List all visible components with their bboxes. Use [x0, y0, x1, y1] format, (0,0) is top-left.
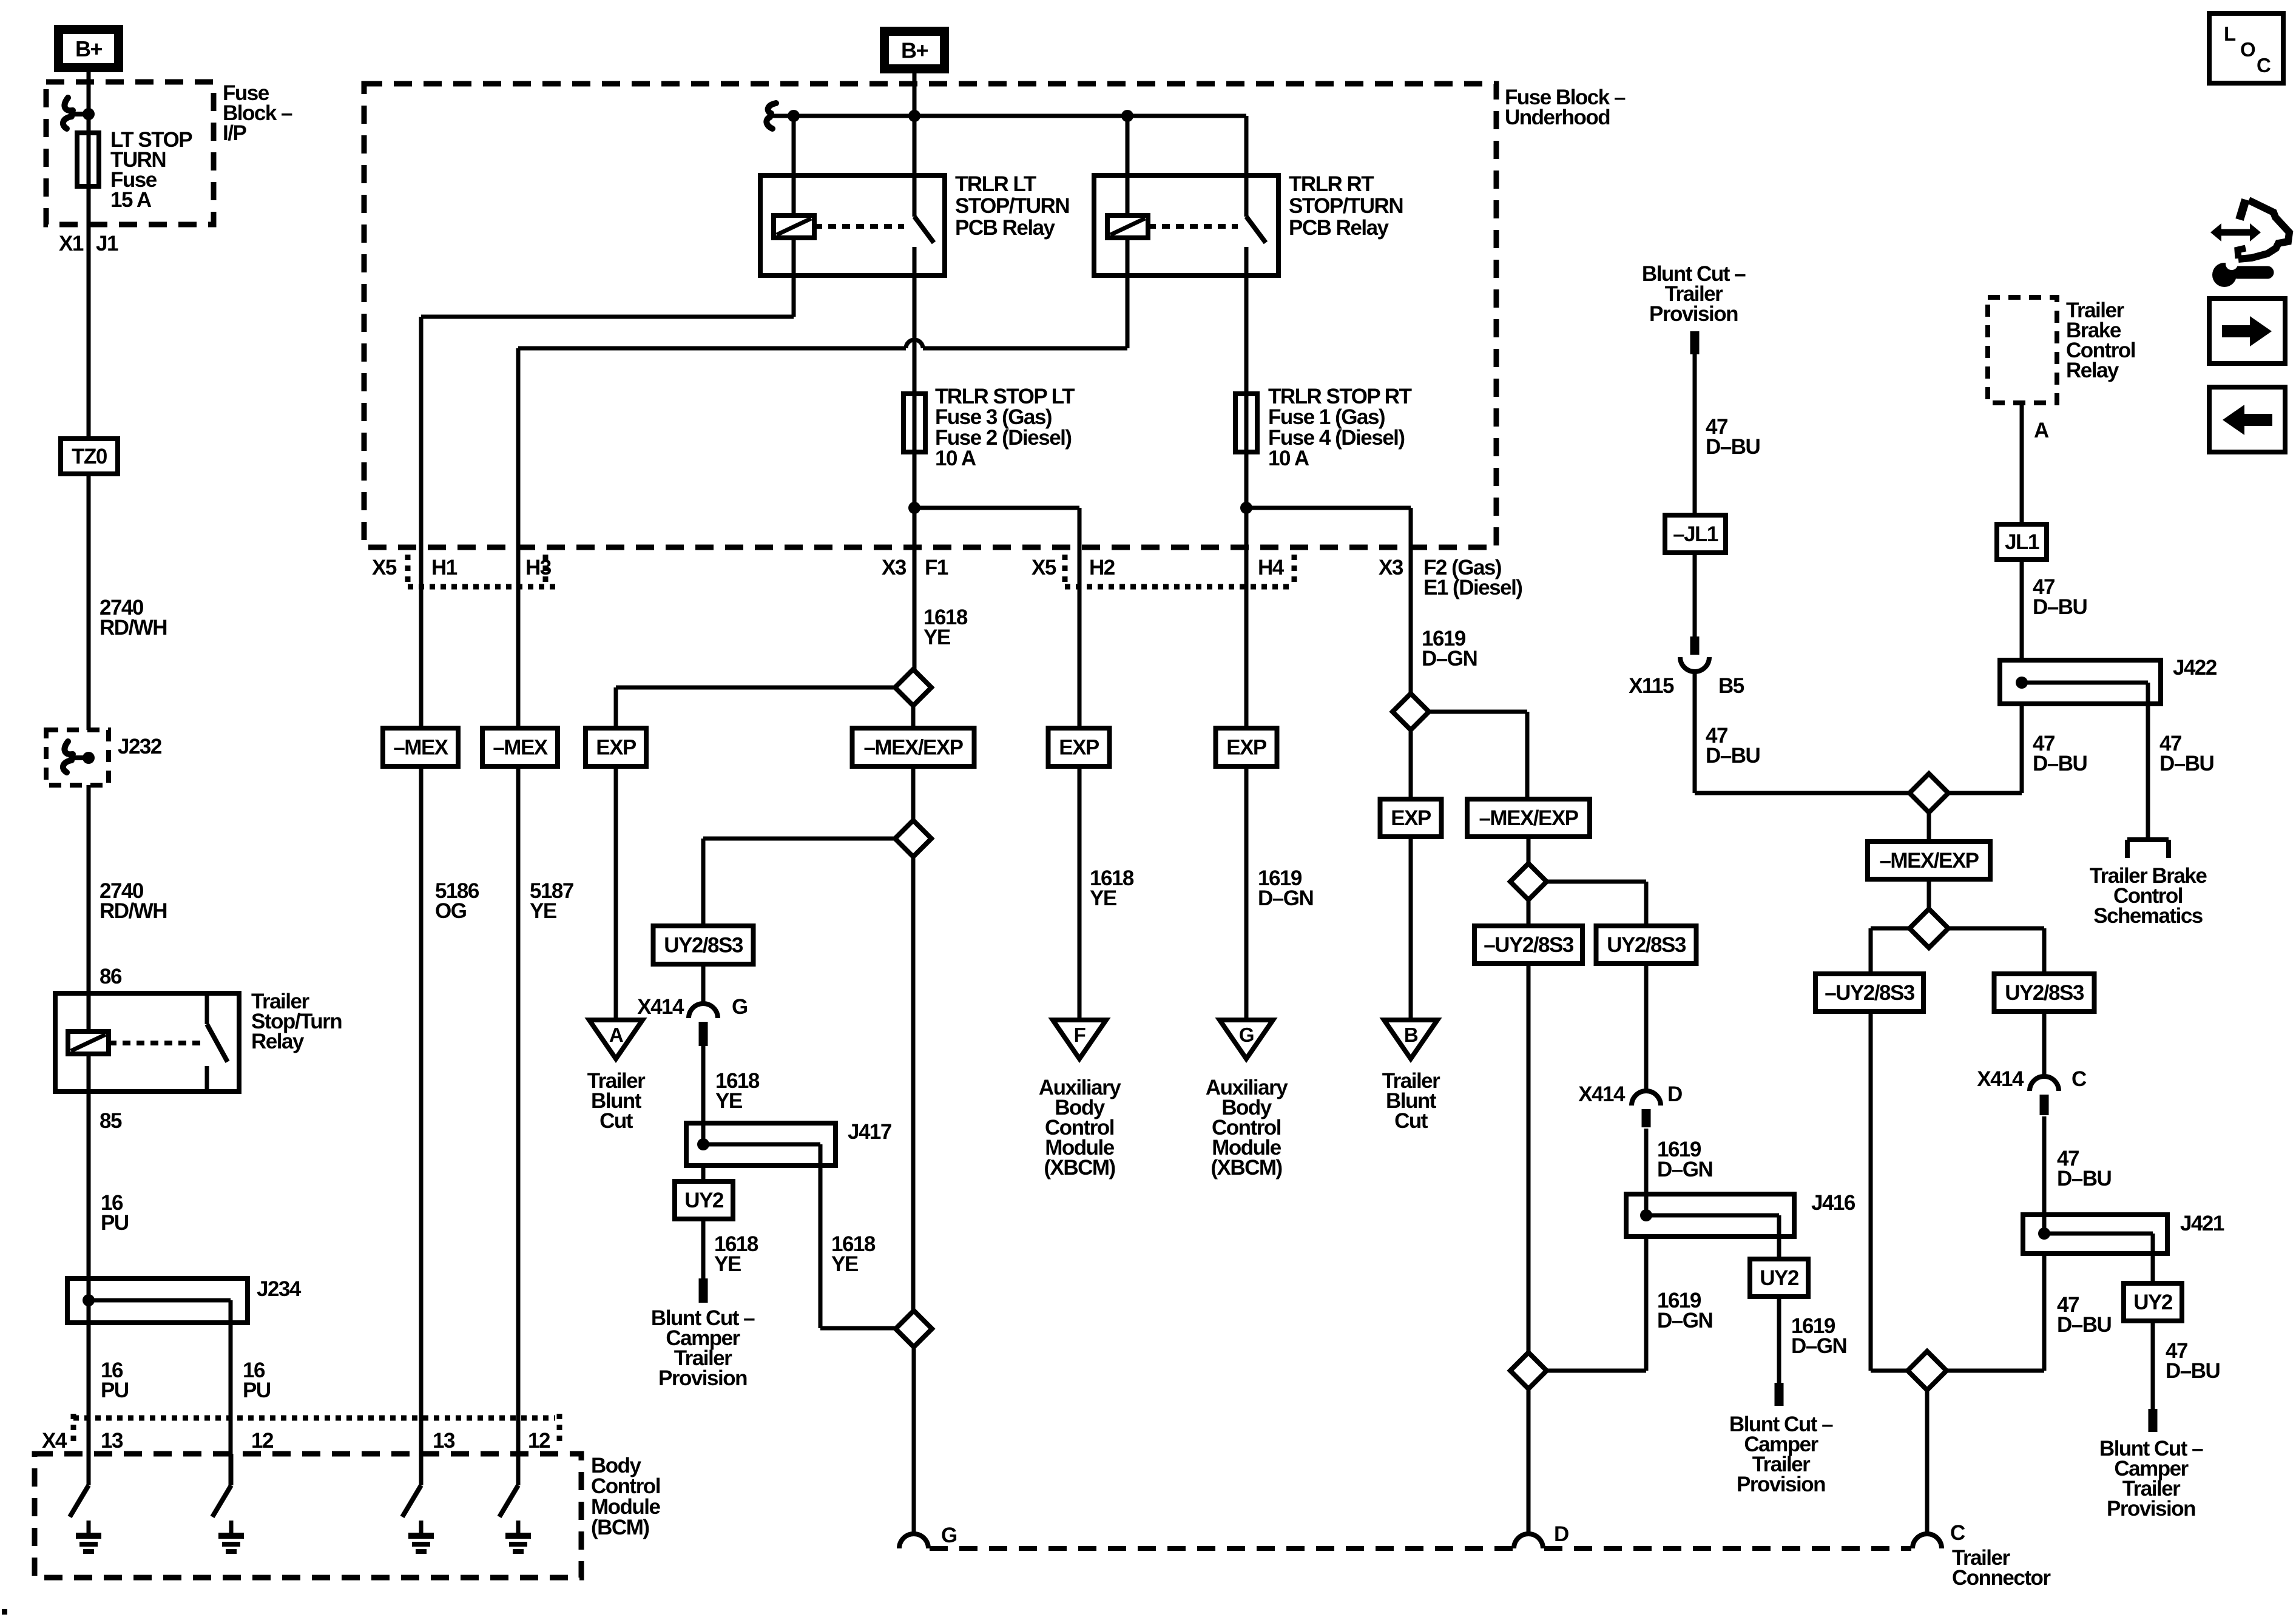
option code box UY2 (camper 1619): [1750, 1259, 1808, 1297]
option code box -JL1: [1665, 515, 1726, 553]
splice diamond 9 on 47 D-BU: [1908, 1351, 1947, 1534]
connector label X1: [59, 232, 84, 255]
svg-text:C: C: [2071, 1067, 2087, 1091]
pin label D: [1667, 1082, 1682, 1106]
pin label H4: [1258, 556, 1285, 579]
svg-text:Blunt Cut –CamperTrailerProvis: Blunt Cut –CamperTrailerProvision: [1729, 1413, 1833, 1496]
svg-text:UY2/8S3: UY2/8S3: [664, 934, 743, 957]
label J422: [2173, 656, 2217, 680]
splice diamond 4 on 1619 D-GN: [1393, 694, 1429, 799]
wire X414 D to J416, 1619 D-GN: [1644, 1129, 1649, 1215]
splice pack J416: [1626, 1194, 1794, 1237]
relay K1 coil: [68, 1031, 109, 1054]
option code box -UY2/8S3 (47 D-BU): [1815, 974, 1923, 1011]
pin label H1: [431, 556, 458, 579]
option code box UY2/8S3 (X414 C): [1994, 974, 2095, 1011]
wire B+ to bus: [913, 73, 917, 116]
svg-text:A: A: [609, 1024, 623, 1046]
in-line connector TZ0: [61, 439, 118, 474]
svg-text:EXP: EXP: [1059, 736, 1099, 760]
wire label 1619 D-GN (X414 D): [1657, 1138, 1712, 1181]
in-line connector X414 cavity G: [689, 1004, 718, 1046]
wire K2 coil to H1 (5186 OG): [421, 238, 794, 728]
svg-text:Blunt Cut –CamperTrailerProvis: Blunt Cut –CamperTrailerProvision: [651, 1306, 755, 1390]
option code box -MEX/EXP (F1): [853, 728, 974, 766]
option code box UY2 (camper): [675, 1181, 733, 1219]
splice diamond on 1618 YE: [895, 669, 931, 728]
label Fuse Block - I/P: [223, 81, 292, 145]
svg-text:TZ0: TZ0: [72, 445, 107, 468]
wire 5187 YE down to BCM: [516, 766, 521, 1485]
svg-text:–MEX/EXP: –MEX/EXP: [1479, 806, 1578, 830]
splice pack J422: [2000, 660, 2161, 704]
splice diamond 7 on 47 D-BU: [1909, 774, 1948, 842]
wire label 47 D-BU (X115): [1706, 724, 1760, 768]
svg-text:D: D: [1667, 1082, 1682, 1106]
pin label F2 (Gas) E1 (Diesel): [1423, 556, 1522, 599]
Trailer Connector dashed line: [930, 1546, 1911, 1551]
wire J421 left leg to diamond 9: [1947, 1254, 2044, 1371]
off-page triangle F: [1053, 1020, 1106, 1059]
svg-text:J234: J234: [257, 1277, 302, 1301]
wire diamond 5 to UY2/8S3 (camper D): [1547, 882, 1646, 926]
relay K2 coil: [774, 215, 814, 238]
wire label 1619 D-GN (camper): [1791, 1314, 1846, 1358]
svg-text:X3: X3: [882, 556, 907, 579]
svg-text:G: G: [941, 1524, 957, 1547]
wire label 2740 RD/WH (lower): [100, 879, 167, 923]
pin label 13 (BCM right): [433, 1429, 455, 1453]
relay K2 coil-contact dashed link: [814, 224, 904, 229]
svg-text:H1: H1: [431, 556, 458, 579]
wire relay coil to J234, circuit 16 PU: [87, 1054, 91, 1485]
svg-text:D: D: [1554, 1522, 1568, 1546]
svg-text:C: C: [2257, 54, 2271, 76]
wire relay pin A to JL1: [2020, 403, 2024, 524]
svg-text:86: 86: [100, 965, 122, 988]
svg-text:X115: X115: [1629, 674, 1674, 698]
wire label 1619 D-GN (J416 left): [1657, 1289, 1712, 1332]
svg-text:–JL1: –JL1: [1673, 522, 1718, 546]
pin label C: [2071, 1067, 2087, 1091]
wire J234 right leg down: [229, 1323, 233, 1485]
wire label 16 PU: [101, 1191, 129, 1235]
junction dot J234: [83, 1294, 95, 1306]
wire B+ to fuse: [87, 72, 91, 134]
wire label 47 D-BU (J422 right): [2159, 732, 2214, 775]
svg-text:F1: F1: [925, 556, 948, 579]
relay K1 coil-contact dashed link: [109, 1041, 200, 1045]
connector label X3 (F2): [1379, 556, 1403, 579]
wire J422 left leg to diamond 7: [1948, 704, 2022, 793]
junction dot bus/coil1: [788, 110, 800, 122]
wire label 1618 YE (top): [923, 606, 968, 649]
wire J416 left leg to diamond 6: [1547, 1237, 1646, 1371]
option code box EXP (B branch): [1380, 799, 1442, 837]
svg-text:B+: B+: [75, 36, 102, 61]
wire label 16 PU (right leg): [243, 1359, 271, 1402]
svg-text:X1: X1: [59, 232, 84, 255]
off-schematic pointer symbol: [2127, 840, 2169, 858]
svg-text:G: G: [732, 995, 748, 1019]
relay K3 coil-contact dashed link: [1148, 224, 1238, 229]
LOC legend box: [2209, 13, 2283, 83]
wire -JL1 to X115: [1690, 553, 1700, 655]
in-line connector X115 cavity B5: [1680, 657, 1709, 672]
wire UY2/8S3 to X414 G: [701, 964, 706, 1005]
wire branch to H2: [914, 508, 1079, 728]
wire J417 right leg to diamond 3: [820, 1166, 896, 1328]
right arrow legend box: [2209, 299, 2285, 363]
svg-text:B+: B+: [901, 38, 928, 63]
wire diamond 8 to -UY2/8S3: [1871, 928, 1909, 974]
junction dot J421: [2038, 1227, 2050, 1240]
option code box UY2 (47 D-BU): [2124, 1283, 2182, 1321]
pin label 12 (BCM): [251, 1429, 274, 1453]
svg-text:EXP: EXP: [1226, 736, 1267, 760]
fuse TRLR STOP RT: [1235, 391, 1257, 508]
label Trailer Connector: [1952, 1546, 2051, 1590]
wire label 1618 YE (camper): [714, 1232, 758, 1276]
pin label G: [732, 995, 748, 1019]
trailer connector cavity G arc: [899, 1534, 928, 1548]
pigtail at bus end: [766, 103, 776, 129]
option code box -MEX/EXP (F2): [1467, 799, 1590, 837]
off-page triangle G: [1220, 1020, 1273, 1059]
B+ battery feed symbol (left): [59, 30, 119, 68]
splice pack J234: [67, 1278, 248, 1323]
wire bus to K2 coil: [792, 116, 796, 215]
pin label F1: [925, 556, 948, 579]
label TRLR STOP RT fuse: [1268, 385, 1412, 470]
wire F1 down: [913, 508, 917, 669]
option code box -MEX/EXP (47 D-BU): [1868, 842, 1990, 879]
Fuse Block - Underhood dashed box: [364, 84, 1496, 547]
wire label 16 PU (left leg): [101, 1359, 129, 1402]
pin label D (trailer connector): [1554, 1522, 1568, 1546]
pin label B5: [1718, 674, 1744, 698]
wire UY2 to blunt cut (47 D-BU): [2149, 1321, 2158, 1432]
option code box EXP (A branch): [586, 728, 646, 766]
label Trailer Stop/Turn Relay: [251, 990, 342, 1053]
wire label 47 D-BU (J421 left): [2057, 1293, 2112, 1337]
svg-text:B5: B5: [1718, 674, 1744, 698]
option code box UY2/8S3 (camper D): [1596, 926, 1697, 964]
relay K3 coil: [1107, 215, 1148, 238]
svg-text:13: 13: [101, 1429, 123, 1453]
wire X115 to diamond 7, 47 D-BU: [1695, 672, 1909, 793]
relay K3 switch contact: [1246, 116, 1266, 275]
label J232: [118, 735, 162, 758]
relay K1 switch contact: [207, 993, 228, 1092]
pin label 86: [100, 965, 122, 988]
option code box JL1: [1997, 524, 2047, 559]
connector label X414 (D): [1578, 1082, 1626, 1106]
connector label X414 (G): [637, 995, 684, 1019]
splice diamond 3 on 1618 YE: [896, 1311, 932, 1534]
svg-text:EXP: EXP: [1391, 806, 1431, 830]
junction dot J417: [697, 1138, 709, 1150]
svg-text:X4: X4: [42, 1429, 67, 1453]
junction dot J422: [2016, 677, 2028, 689]
wire EXP to triangle B: [1409, 837, 1413, 1020]
pin label J1: [96, 232, 118, 255]
B+ distribution bus wire: [772, 114, 1246, 118]
connector bracket H1/H3 dotted: [408, 555, 559, 587]
svg-text:13: 13: [433, 1429, 455, 1453]
wire UY2 to blunt cut, 1618 YE: [699, 1219, 708, 1303]
wire J417 to UY2: [701, 1166, 706, 1181]
label Blunt Cut Camper Trailer Provision (1619): [1729, 1413, 1833, 1496]
B+ battery feed symbol (center): [885, 32, 945, 69]
BCM internal switch and ground 4: [499, 1454, 531, 1551]
svg-text:Fuse Block –Underhood: Fuse Block –Underhood: [1505, 86, 1626, 129]
pin label C (trailer connector): [1950, 1521, 1965, 1545]
option code box -UY2/8S3 (D chain): [1474, 926, 1582, 964]
svg-text:–MEX: –MEX: [493, 736, 548, 760]
junction dot bus/B+: [908, 110, 920, 122]
svg-text:O: O: [2240, 38, 2255, 61]
wire label 1619 D-GN (top): [1422, 627, 1477, 670]
wire UY2/8S3 to X414 D: [1644, 964, 1649, 1092]
svg-text:12: 12: [251, 1429, 274, 1453]
wire TZ0 down, circuit 2740 RD/WH: [87, 474, 91, 730]
wire J232 to relay coil: [87, 785, 91, 1031]
label LT STOP TURN Fuse 15 A: [110, 128, 192, 212]
in-line connector X414 cavity C: [2030, 1076, 2059, 1115]
wire bus to K3 coil: [1126, 116, 1130, 215]
relay K1 Trailer Stop/Turn Relay box: [55, 993, 239, 1092]
label Trailer Blunt Cut (A): [587, 1069, 646, 1133]
off-page triangle A: [589, 1020, 643, 1059]
vehicle diagnostic icon: [2210, 200, 2289, 287]
Body Control Module BCM dashed box: [35, 1454, 581, 1578]
svg-text:EXP: EXP: [596, 736, 636, 760]
label TRLR LT STOP/TURN PCB Relay: [955, 172, 1069, 240]
splice pack J417: [686, 1123, 836, 1166]
svg-text:L: L: [2224, 22, 2236, 45]
connector X4 dotted row: [73, 1414, 559, 1447]
svg-text:X5: X5: [1032, 556, 1056, 579]
wire blunt cut to -JL1, 47 D-BU: [1693, 354, 1697, 515]
svg-text:UY2/8S3: UY2/8S3: [2005, 981, 2084, 1005]
label Trailer Brake Control Relay: [2066, 299, 2135, 382]
svg-text:J421: J421: [2180, 1212, 2224, 1235]
wire diamond 4 to -MEX/EXP: [1429, 712, 1527, 799]
wire X414 C to J421, 47 D-BU: [2042, 1116, 2047, 1234]
label Blunt Cut Camper Trailer Provision (47 D-BU): [2099, 1437, 2203, 1521]
wire UY2 to blunt cut (1619): [1775, 1297, 1784, 1406]
svg-text:J422: J422: [2173, 656, 2217, 680]
wire K2 switch to fuse TRLR STOP LT: [913, 275, 917, 391]
option code box -MEX (5187): [482, 728, 558, 766]
wire -MEX/EXP to diamond: [911, 766, 916, 820]
wire label 1618 YE (J417 right): [831, 1232, 876, 1276]
connector label X414 (C): [1977, 1067, 2024, 1091]
pin label H2: [1089, 556, 1115, 579]
wire X414 G to J417, 1618 YE: [701, 1046, 706, 1144]
svg-text:J232: J232: [118, 735, 162, 758]
BCM internal switch and ground 2: [212, 1454, 244, 1551]
wire label 5187 YE: [530, 879, 573, 923]
svg-text:G: G: [1239, 1024, 1254, 1046]
wire label 47 D-BU (blunt cut): [1706, 415, 1760, 459]
junction dot F1 branch: [908, 502, 920, 514]
fuse TRLR STOP LT: [903, 391, 925, 508]
connector label X3 (F1): [882, 556, 907, 579]
label Body Control Module (BCM): [591, 1454, 661, 1539]
Trailer Brake Control Relay dashed box: [1988, 297, 2057, 403]
splice pack J421: [2023, 1215, 2167, 1254]
svg-text:F: F: [1074, 1024, 1086, 1046]
relay K2 TRLR LT STOP/TURN PCB Relay box: [760, 175, 945, 275]
junction dot bus/coil2: [1121, 110, 1133, 122]
svg-text:A: A: [2034, 419, 2049, 442]
wire to EXP (trailer blunt cut A): [616, 687, 895, 728]
wire K3 coil to H3 (5187 YE) with hop over F1 wire: [518, 238, 1127, 728]
label TRLR STOP LT fuse: [935, 385, 1075, 470]
wire J416 right leg to UY2: [1777, 1237, 1781, 1259]
relay K2 switch contact: [914, 116, 934, 275]
relay K3 TRLR RT STOP/TURN PCB Relay box: [1094, 175, 1278, 275]
in-line connector X414 cavity D: [1632, 1091, 1661, 1127]
option code box EXP (H2): [1048, 728, 1110, 766]
label Blunt Cut Camper Trailer Provision (1618): [651, 1306, 755, 1390]
svg-text:J416: J416: [1811, 1191, 1855, 1215]
junction dot J232: [83, 752, 95, 764]
label J416: [1811, 1191, 1855, 1215]
wire J421 right leg to UY2: [2151, 1254, 2155, 1283]
wire label 47 D-BU (X414 C): [2057, 1147, 2112, 1190]
svg-text:UY2: UY2: [1760, 1266, 1799, 1290]
svg-text:AuxiliaryBodyControlModule(XBC: AuxiliaryBodyControlModule(XBCM): [1039, 1076, 1121, 1180]
connector bracket H2/H4 dotted: [1065, 555, 1294, 587]
pin label 12 (BCM rightmost): [528, 1429, 550, 1453]
blunt cut terminal (47 D-BU top): [1690, 331, 1700, 354]
svg-text:–UY2/8S3: –UY2/8S3: [1484, 933, 1574, 957]
wire EXP to triangle A: [614, 766, 618, 1020]
trailer connector cavity C arc: [1913, 1534, 1942, 1548]
left arrow legend box: [2209, 387, 2285, 452]
wire label 47 D-BU (camper): [2166, 1339, 2220, 1383]
wire 5186 OG down to BCM: [419, 766, 424, 1485]
splice J232 dashed box: [46, 730, 109, 785]
svg-text:UY2/8S3: UY2/8S3: [1607, 933, 1686, 957]
svg-text:JL1: JL1: [2005, 530, 2039, 554]
svg-text:X5: X5: [372, 556, 397, 579]
wire branch to F2: [1246, 508, 1411, 694]
svg-text:Blunt Cut –CamperTrailerProvis: Blunt Cut –CamperTrailerProvision: [2099, 1437, 2203, 1521]
label Blunt Cut Trailer Provision: [1642, 262, 1746, 326]
wire diamond 8 to UY2/8S3 (X414 C): [1948, 928, 2044, 974]
connector label X5 (H2): [1032, 556, 1056, 579]
svg-text:X3: X3: [1379, 556, 1403, 579]
page footer period: [2, 1609, 7, 1615]
svg-text:B: B: [1404, 1024, 1418, 1046]
splice diamond 6 on 1619 D-GN: [1510, 1352, 1547, 1534]
label J421: [2180, 1212, 2224, 1235]
label Auxiliary Body Control Module XBCM (G): [1206, 1076, 1288, 1180]
svg-text:12: 12: [528, 1429, 550, 1453]
svg-text:X414: X414: [1977, 1067, 2024, 1091]
splice diamond 2 on 1618 YE: [895, 820, 931, 1311]
off-page triangle B: [1384, 1020, 1437, 1059]
label Trailer Blunt Cut (B): [1382, 1069, 1440, 1133]
svg-text:J1: J1: [96, 232, 118, 255]
wire UY2/8S3 to X414 C: [2042, 1011, 2047, 1078]
wire -UY2/8S3 down to diamond 6: [1527, 964, 1531, 1352]
label J234: [257, 1277, 302, 1301]
BCM internal switch and ground 1: [70, 1454, 101, 1551]
label J417: [848, 1120, 891, 1144]
pin label 13 (BCM): [101, 1429, 123, 1453]
connector label X115: [1629, 674, 1674, 698]
pin label 85: [100, 1109, 122, 1133]
trailer connector cavity D arc: [1514, 1534, 1543, 1548]
svg-text:–MEX: –MEX: [393, 736, 448, 760]
svg-text:X414: X414: [1578, 1082, 1626, 1106]
label Trailer Brake Control Schematics: [2090, 864, 2207, 928]
wire H2 to triangle F, 1618 YE: [1078, 766, 1082, 1020]
wire -UY2/8S3 down to diamond 9: [1871, 1011, 1908, 1371]
svg-text:UY2: UY2: [2133, 1291, 2173, 1314]
svg-text:AuxiliaryBodyControlModule(XBC: AuxiliaryBodyControlModule(XBCM): [1206, 1076, 1288, 1180]
wire fuse to TZ0: [87, 187, 91, 439]
option code box UY2/8S3 (G branch): [653, 926, 754, 964]
BCM internal switch and ground 3: [402, 1454, 434, 1551]
label TRLR RT STOP/TURN PCB Relay: [1289, 172, 1403, 240]
pigtail splice at J1: [63, 98, 89, 129]
wire label 5186 OG: [435, 879, 479, 923]
wire H4 to triangle G, 1619 D-GN: [1244, 766, 1249, 1020]
wire H4 down: [1244, 508, 1249, 728]
wire label 47 D-BU (JL1): [2033, 575, 2087, 619]
wire label 1619 D-GN (H4): [1258, 866, 1313, 910]
wire label 2740 RD/WH: [100, 596, 167, 640]
svg-text:C: C: [1950, 1521, 1965, 1545]
svg-text:H4: H4: [1258, 556, 1285, 579]
option code box EXP (H4): [1216, 728, 1277, 766]
pin label G (trailer connector): [941, 1524, 957, 1547]
svg-text:UY2: UY2: [684, 1189, 724, 1212]
connector label X4: [42, 1429, 67, 1453]
junction dot J416: [1640, 1209, 1652, 1221]
svg-text:–MEX/EXP: –MEX/EXP: [863, 736, 963, 760]
svg-text:–UY2/8S3: –UY2/8S3: [1825, 981, 1915, 1005]
pin label A: [2034, 419, 2049, 442]
wire JL1 to J422, 47 D-BU: [2020, 559, 2024, 659]
wire label 1618 YE (G branch): [715, 1069, 760, 1113]
label Auxiliary Body Control Module XBCM (F): [1039, 1076, 1121, 1180]
wire K3 switch to fuse TRLR STOP RT: [1244, 275, 1249, 391]
option code box -MEX (5186): [383, 728, 458, 766]
splice diamond 5 on 1619 D-GN: [1510, 837, 1547, 926]
wire label 47 D-BU (J422 left): [2033, 732, 2087, 775]
connector label X5 (left): [372, 556, 397, 579]
junction dot F2 branch: [1240, 502, 1252, 514]
svg-text:H2: H2: [1089, 556, 1115, 579]
Fuse Block - I/P dashed box: [46, 82, 214, 224]
wire J422 right leg to schematic pointer: [2146, 704, 2150, 840]
svg-text:X414: X414: [637, 995, 684, 1019]
svg-text:J417: J417: [848, 1120, 891, 1144]
svg-text:–MEX/EXP: –MEX/EXP: [1879, 849, 1979, 873]
pigtail splice at J232: [63, 741, 89, 772]
splice diamond 8 on 47 D-BU: [1909, 879, 1948, 948]
wire label 1618 YE (H2): [1090, 866, 1134, 910]
label Fuse Block - Underhood: [1505, 86, 1626, 129]
junction dot J1: [83, 108, 95, 120]
